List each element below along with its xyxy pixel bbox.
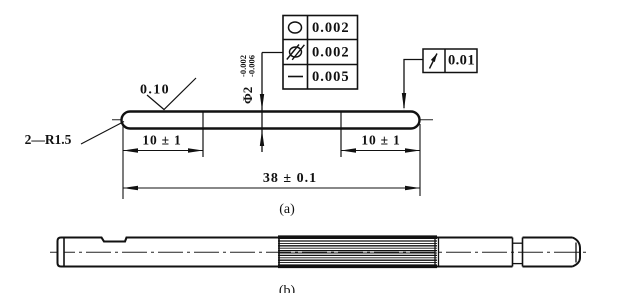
centerline of shaft (a): [112, 119, 433, 121]
symbol cylindricity: [287, 45, 305, 60]
division line right (10mm from right end): [340, 112, 342, 157]
centerline of shaft (b): [50, 251, 590, 253]
phi2 arrow upper (points down to top edge): [260, 94, 264, 110]
shaft (b) body top edge with notch: [64, 238, 573, 242]
extension line right (38 dim): [419, 124, 421, 196]
svg-text:38 ± 0.1: 38 ± 0.1: [263, 171, 317, 186]
right end dome/chamfer: [573, 238, 581, 267]
svg-text:0.002: 0.002: [312, 45, 350, 61]
phi2 dimension line: [261, 53, 263, 153]
runout leader arrow: [402, 93, 406, 110]
svg-text:2—R1.5: 2—R1.5: [25, 132, 72, 147]
phi2 value text (rotated): [238, 55, 257, 104]
svg-text:(a): (a): [279, 202, 295, 217]
svg-text:10 ± 1: 10 ± 1: [361, 133, 400, 148]
leader from runout frame: [404, 60, 423, 109]
extension line left (38 dim): [122, 125, 124, 199]
feature control frame (circularity/cylindricity/straightness): [283, 16, 358, 90]
division line left (10mm from left end): [202, 112, 204, 157]
runout symbol (arrow): [430, 54, 438, 69]
leader for 0.10: [147, 78, 196, 110]
dimension 10+-1 left: [123, 150, 203, 152]
knurled section: [278, 236, 439, 267]
right end chamfer line: [575, 243, 577, 263]
symbol circularity: [289, 22, 302, 33]
groove near right end: [513, 238, 523, 267]
svg-text:(b): (b): [279, 284, 296, 293]
svg-text:0.002: 0.002: [312, 20, 350, 36]
svg-text:0.005: 0.005: [312, 69, 350, 85]
svg-text:10 ± 1: 10 ± 1: [142, 133, 181, 148]
dimension 38+-0.1: [123, 187, 420, 189]
dimension 10+-1 right: [341, 150, 420, 152]
leader for 2-R1.5: [81, 122, 124, 145]
svg-text:-0.006: -0.006: [247, 55, 257, 77]
svg-text:Φ2: Φ2: [240, 87, 255, 104]
shaft (b) left cap junction: [63, 238, 65, 267]
phi2 arrow lower (points up to bottom edge): [260, 130, 264, 146]
shaft body (a) outline: [122, 112, 420, 129]
svg-text:0.10: 0.10: [140, 83, 170, 98]
shaft (b) left cap: [58, 238, 65, 267]
svg-text:0.01: 0.01: [448, 53, 475, 69]
symbol straightness: [288, 76, 303, 78]
shaft (b) body bottom edge: [64, 265, 573, 267]
connector from phi2 line to feature frame: [262, 52, 283, 54]
runout feature frame: [423, 49, 477, 73]
